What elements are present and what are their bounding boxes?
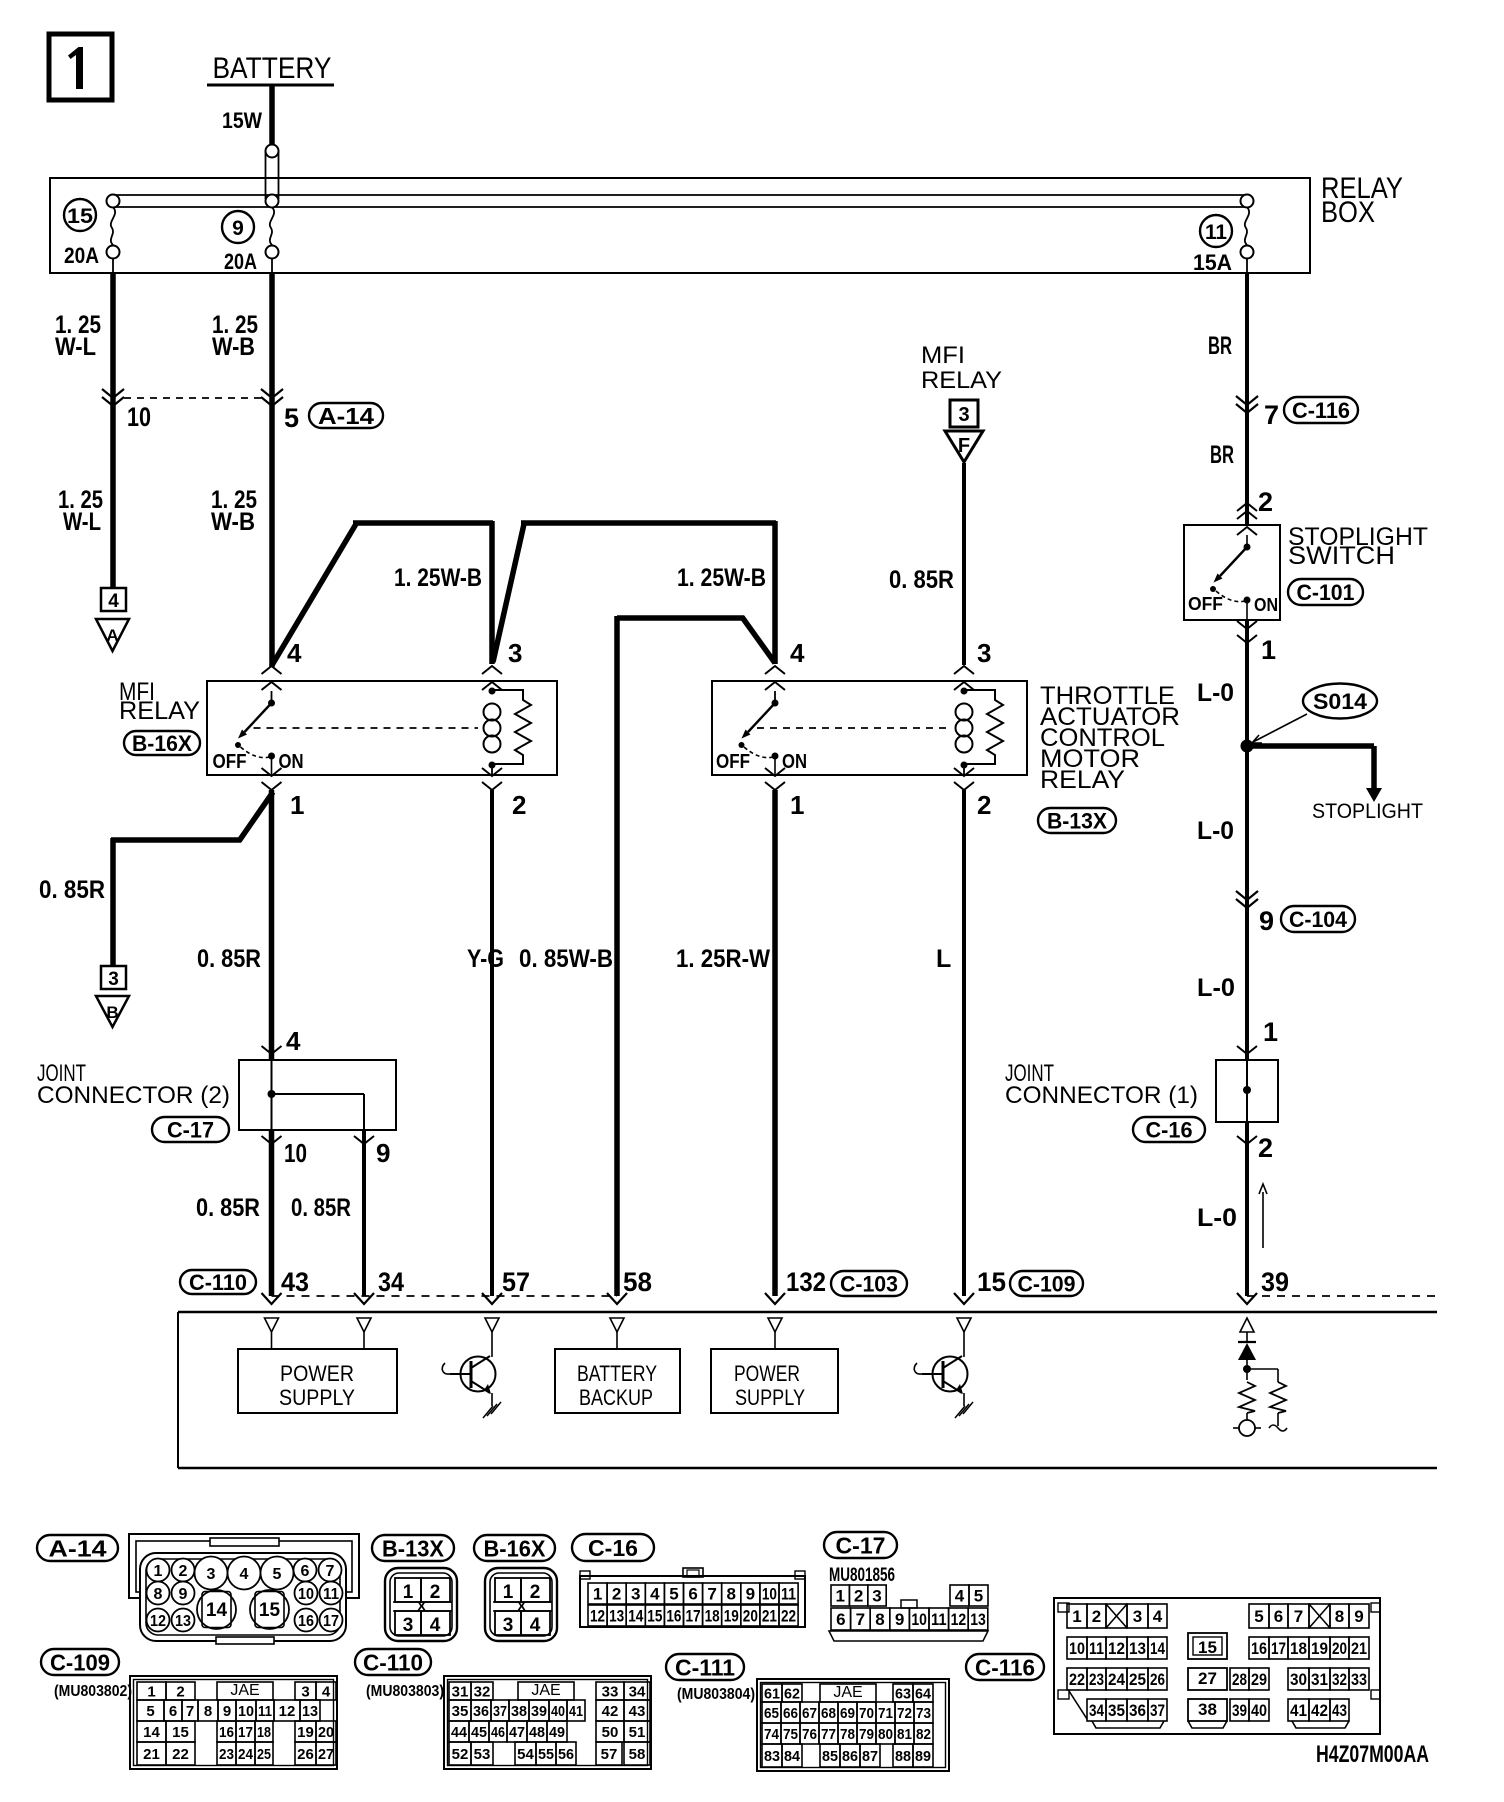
svg-text:1: 1 bbox=[154, 1563, 163, 1580]
svg-text:JAE: JAE bbox=[833, 1684, 862, 1701]
svg-text:2: 2 bbox=[612, 1585, 621, 1604]
svg-text:16: 16 bbox=[1251, 1639, 1267, 1658]
svg-text:10: 10 bbox=[762, 1585, 777, 1604]
svg-text:14: 14 bbox=[206, 1600, 228, 1621]
svg-text:7: 7 bbox=[856, 1610, 865, 1629]
svg-text:ON: ON bbox=[1254, 595, 1278, 615]
svg-text:74: 74 bbox=[764, 1726, 780, 1743]
svg-text:5: 5 bbox=[273, 1566, 282, 1583]
svg-text:41: 41 bbox=[569, 1703, 583, 1720]
svg-text:B-16X: B-16X bbox=[484, 1535, 547, 1561]
svg-text:10: 10 bbox=[127, 402, 151, 432]
svg-text:7: 7 bbox=[1264, 400, 1279, 430]
svg-text:47: 47 bbox=[509, 1724, 525, 1741]
svg-text:11: 11 bbox=[323, 1586, 339, 1603]
svg-text:2: 2 bbox=[176, 1683, 184, 1700]
svg-text:10: 10 bbox=[284, 1138, 307, 1168]
svg-text:18: 18 bbox=[705, 1607, 720, 1626]
svg-text:43: 43 bbox=[629, 1703, 646, 1720]
svg-text:55: 55 bbox=[538, 1746, 554, 1763]
svg-text:C-109: C-109 bbox=[1018, 1271, 1076, 1296]
svg-text:JAE: JAE bbox=[230, 1682, 259, 1699]
svg-text:15: 15 bbox=[1198, 1638, 1217, 1657]
svg-text:BATTERY: BATTERY bbox=[213, 52, 332, 85]
svg-text:44: 44 bbox=[451, 1724, 468, 1741]
svg-text:2: 2 bbox=[1258, 487, 1273, 517]
svg-text:4: 4 bbox=[530, 1615, 541, 1636]
svg-text:12: 12 bbox=[150, 1613, 166, 1630]
svg-text:ON: ON bbox=[782, 751, 807, 773]
svg-text:12: 12 bbox=[1108, 1639, 1125, 1658]
svg-text:1: 1 bbox=[503, 1582, 514, 1603]
svg-text:31: 31 bbox=[452, 1683, 469, 1700]
svg-text:26: 26 bbox=[1150, 1670, 1165, 1689]
svg-text:C-17: C-17 bbox=[167, 1117, 214, 1142]
svg-text:58: 58 bbox=[623, 1267, 652, 1297]
svg-text:Y-G: Y-G bbox=[467, 945, 504, 973]
svg-text:38: 38 bbox=[1198, 1700, 1217, 1719]
svg-text:11: 11 bbox=[1205, 221, 1227, 244]
svg-text:20: 20 bbox=[743, 1607, 758, 1626]
svg-text:76: 76 bbox=[802, 1726, 817, 1743]
svg-text:3: 3 bbox=[977, 638, 991, 668]
svg-text:20A: 20A bbox=[224, 249, 257, 274]
svg-text:12: 12 bbox=[951, 1610, 967, 1629]
svg-text:80: 80 bbox=[878, 1726, 893, 1743]
svg-text:13: 13 bbox=[1129, 1639, 1146, 1658]
svg-text:15: 15 bbox=[259, 1600, 281, 1621]
svg-text:C-110: C-110 bbox=[189, 1270, 247, 1295]
svg-text:11: 11 bbox=[781, 1585, 796, 1604]
svg-text:(MU803804): (MU803804) bbox=[677, 1686, 755, 1703]
svg-text:17: 17 bbox=[323, 1613, 339, 1630]
svg-text:58: 58 bbox=[629, 1746, 646, 1763]
svg-text:38: 38 bbox=[511, 1703, 527, 1720]
svg-text:13: 13 bbox=[175, 1613, 191, 1630]
svg-text:28: 28 bbox=[1232, 1670, 1247, 1689]
svg-text:73: 73 bbox=[916, 1705, 931, 1722]
svg-text:11: 11 bbox=[931, 1610, 947, 1629]
svg-text:45: 45 bbox=[471, 1724, 487, 1741]
svg-text:A-14: A-14 bbox=[318, 403, 374, 429]
svg-text:21: 21 bbox=[143, 1746, 160, 1763]
svg-text:5: 5 bbox=[146, 1703, 154, 1720]
svg-text:C-103: C-103 bbox=[840, 1271, 898, 1296]
svg-text:71: 71 bbox=[878, 1705, 893, 1722]
svg-text:3: 3 bbox=[207, 1566, 216, 1583]
svg-text:SUPPLY: SUPPLY bbox=[279, 1385, 355, 1410]
svg-text:4: 4 bbox=[1153, 1607, 1163, 1626]
svg-text:61: 61 bbox=[764, 1685, 780, 1702]
svg-text:34: 34 bbox=[378, 1267, 404, 1297]
svg-text:37: 37 bbox=[493, 1703, 507, 1720]
svg-text:62: 62 bbox=[784, 1685, 800, 1702]
svg-text:8: 8 bbox=[727, 1585, 736, 1604]
svg-text:15A: 15A bbox=[1193, 250, 1232, 275]
svg-text:13: 13 bbox=[609, 1607, 624, 1626]
svg-text:6: 6 bbox=[169, 1703, 177, 1720]
svg-text:MU801856: MU801856 bbox=[829, 1565, 895, 1586]
svg-text:24: 24 bbox=[1108, 1670, 1125, 1689]
svg-text:B-16X: B-16X bbox=[132, 731, 192, 756]
svg-text:41: 41 bbox=[1290, 1701, 1307, 1720]
svg-text:65: 65 bbox=[764, 1705, 779, 1722]
svg-text:87: 87 bbox=[862, 1748, 878, 1765]
svg-text:W-B: W-B bbox=[211, 508, 255, 536]
svg-text:JAE: JAE bbox=[531, 1682, 560, 1699]
svg-text:C-109: C-109 bbox=[50, 1649, 110, 1675]
svg-text:10: 10 bbox=[1069, 1639, 1085, 1658]
svg-text:5: 5 bbox=[669, 1585, 678, 1604]
svg-text:1: 1 bbox=[1072, 1607, 1081, 1626]
svg-text:64: 64 bbox=[915, 1685, 932, 1702]
svg-text:8: 8 bbox=[1335, 1607, 1344, 1626]
svg-text:85: 85 bbox=[822, 1748, 838, 1765]
svg-text:4: 4 bbox=[287, 638, 302, 668]
svg-text:BATTERY: BATTERY bbox=[577, 1361, 657, 1386]
svg-text:CONNECTOR (2): CONNECTOR (2) bbox=[37, 1082, 230, 1109]
svg-text:2: 2 bbox=[430, 1582, 441, 1603]
svg-text:BACKUP: BACKUP bbox=[579, 1385, 653, 1410]
svg-text:F: F bbox=[958, 435, 970, 457]
svg-text:H4Z07M00AA: H4Z07M00AA bbox=[1316, 1741, 1429, 1768]
svg-text:0. 85R: 0. 85R bbox=[889, 566, 954, 594]
svg-text:88: 88 bbox=[895, 1748, 911, 1765]
svg-text:40: 40 bbox=[1251, 1701, 1267, 1720]
svg-text:7: 7 bbox=[1294, 1607, 1303, 1626]
svg-text:B-13X: B-13X bbox=[382, 1535, 445, 1561]
svg-text:L-0: L-0 bbox=[1197, 974, 1235, 1002]
svg-text:3: 3 bbox=[958, 404, 969, 426]
svg-text:68: 68 bbox=[821, 1705, 836, 1722]
svg-text:0. 85R: 0. 85R bbox=[197, 945, 261, 973]
svg-text:OFF: OFF bbox=[1188, 594, 1223, 614]
svg-text:21: 21 bbox=[762, 1607, 777, 1626]
svg-text:22: 22 bbox=[172, 1746, 189, 1763]
svg-text:2: 2 bbox=[1092, 1607, 1101, 1626]
svg-text:39: 39 bbox=[1261, 1267, 1289, 1297]
svg-text:7: 7 bbox=[707, 1585, 716, 1604]
svg-text:37: 37 bbox=[1150, 1701, 1165, 1720]
svg-text:BOX: BOX bbox=[1321, 196, 1375, 229]
svg-text:S014: S014 bbox=[1313, 689, 1368, 714]
svg-text:27: 27 bbox=[1198, 1669, 1217, 1688]
svg-text:3: 3 bbox=[301, 1683, 309, 1700]
svg-text:9: 9 bbox=[746, 1585, 755, 1604]
svg-text:6: 6 bbox=[301, 1563, 310, 1580]
svg-text:31: 31 bbox=[1311, 1670, 1328, 1689]
svg-text:1. 25W-B: 1. 25W-B bbox=[677, 564, 766, 592]
svg-text:78: 78 bbox=[840, 1726, 855, 1743]
svg-text:1: 1 bbox=[147, 1683, 155, 1700]
svg-text:34: 34 bbox=[1089, 1701, 1104, 1720]
svg-text:C-16: C-16 bbox=[588, 1535, 638, 1561]
svg-text:RELAY: RELAY bbox=[921, 367, 1002, 394]
svg-text:89: 89 bbox=[915, 1748, 931, 1765]
svg-text:34: 34 bbox=[629, 1683, 646, 1700]
svg-text:21: 21 bbox=[1351, 1639, 1367, 1658]
svg-text:W-L: W-L bbox=[63, 508, 101, 536]
svg-text:BR: BR bbox=[1208, 332, 1232, 360]
svg-text:1: 1 bbox=[790, 790, 804, 820]
svg-text:14: 14 bbox=[628, 1607, 644, 1626]
svg-text:48: 48 bbox=[529, 1724, 545, 1741]
svg-text:3: 3 bbox=[508, 638, 522, 668]
svg-text:25: 25 bbox=[257, 1746, 271, 1763]
svg-text:77: 77 bbox=[821, 1726, 836, 1743]
svg-text:63: 63 bbox=[895, 1685, 911, 1702]
svg-text:2: 2 bbox=[530, 1582, 541, 1603]
svg-text:53: 53 bbox=[474, 1746, 491, 1763]
svg-text:13: 13 bbox=[302, 1703, 318, 1720]
svg-text:3: 3 bbox=[403, 1615, 414, 1636]
svg-text:SUPPLY: SUPPLY bbox=[735, 1385, 805, 1410]
svg-text:15: 15 bbox=[647, 1607, 662, 1626]
svg-text:46: 46 bbox=[491, 1724, 505, 1741]
svg-text:5: 5 bbox=[284, 403, 299, 433]
svg-text:9: 9 bbox=[223, 1703, 231, 1720]
svg-text:15: 15 bbox=[67, 205, 93, 228]
svg-text:4: 4 bbox=[240, 1566, 249, 1583]
svg-text:4: 4 bbox=[322, 1683, 331, 1700]
svg-text:1. 25W-B: 1. 25W-B bbox=[394, 564, 482, 592]
svg-text:9: 9 bbox=[179, 1586, 188, 1603]
svg-text:14: 14 bbox=[143, 1724, 160, 1741]
svg-text:26: 26 bbox=[297, 1746, 314, 1763]
svg-text:4: 4 bbox=[108, 591, 119, 612]
svg-text:32: 32 bbox=[1332, 1670, 1347, 1689]
svg-text:54: 54 bbox=[517, 1746, 534, 1763]
svg-text:1: 1 bbox=[835, 1587, 844, 1606]
svg-text:19: 19 bbox=[724, 1607, 739, 1626]
svg-text:POWER: POWER bbox=[734, 1361, 800, 1386]
svg-text:20: 20 bbox=[1332, 1639, 1347, 1658]
svg-text:4: 4 bbox=[650, 1585, 660, 1604]
svg-text:19: 19 bbox=[297, 1724, 314, 1741]
svg-text:0. 85R: 0. 85R bbox=[291, 1194, 351, 1222]
svg-text:6: 6 bbox=[836, 1610, 845, 1629]
svg-text:15: 15 bbox=[977, 1267, 1006, 1297]
svg-text:25: 25 bbox=[1129, 1670, 1146, 1689]
svg-text:10: 10 bbox=[298, 1586, 314, 1603]
svg-text:35: 35 bbox=[1108, 1701, 1125, 1720]
svg-text:C-110: C-110 bbox=[363, 1649, 423, 1675]
svg-text:10: 10 bbox=[911, 1610, 927, 1629]
svg-text:57: 57 bbox=[502, 1267, 530, 1297]
svg-text:3: 3 bbox=[872, 1587, 881, 1606]
svg-text:7: 7 bbox=[186, 1703, 194, 1720]
svg-text:23: 23 bbox=[1089, 1670, 1104, 1689]
svg-text:51: 51 bbox=[629, 1724, 646, 1741]
svg-text:56: 56 bbox=[558, 1746, 574, 1763]
svg-text:39: 39 bbox=[531, 1703, 547, 1720]
svg-text:69: 69 bbox=[840, 1705, 855, 1722]
svg-text:MFI: MFI bbox=[921, 342, 965, 369]
svg-text:X: X bbox=[417, 1598, 427, 1614]
svg-text:72: 72 bbox=[897, 1705, 912, 1722]
svg-text:27: 27 bbox=[318, 1746, 334, 1763]
svg-text:W-L: W-L bbox=[55, 333, 96, 361]
svg-text:24: 24 bbox=[238, 1746, 254, 1763]
svg-text:15: 15 bbox=[172, 1724, 189, 1741]
svg-text:49: 49 bbox=[549, 1724, 565, 1741]
svg-text:29: 29 bbox=[1251, 1670, 1267, 1689]
svg-text:43: 43 bbox=[1332, 1701, 1347, 1720]
svg-text:L: L bbox=[936, 945, 951, 973]
svg-text:0. 85W-B: 0. 85W-B bbox=[519, 945, 613, 973]
svg-text:OFF: OFF bbox=[716, 751, 750, 773]
svg-text:6: 6 bbox=[688, 1585, 697, 1604]
svg-text:1: 1 bbox=[593, 1585, 602, 1604]
svg-text:12: 12 bbox=[590, 1607, 605, 1626]
svg-text:7: 7 bbox=[326, 1563, 335, 1580]
svg-text:10: 10 bbox=[238, 1703, 254, 1720]
svg-text:36: 36 bbox=[473, 1703, 489, 1720]
svg-text:30: 30 bbox=[1290, 1670, 1307, 1689]
svg-text:75: 75 bbox=[783, 1726, 798, 1743]
svg-text:CONNECTOR (1): CONNECTOR (1) bbox=[1005, 1082, 1198, 1109]
svg-text:33: 33 bbox=[602, 1683, 619, 1700]
svg-text:5: 5 bbox=[974, 1587, 983, 1606]
svg-text:B: B bbox=[106, 1003, 118, 1022]
svg-text:66: 66 bbox=[783, 1705, 798, 1722]
svg-text:C-16: C-16 bbox=[1146, 1117, 1193, 1142]
svg-text:3: 3 bbox=[1133, 1607, 1142, 1626]
svg-text:22: 22 bbox=[1069, 1670, 1085, 1689]
svg-text:9: 9 bbox=[376, 1138, 390, 1168]
svg-text:52: 52 bbox=[452, 1746, 469, 1763]
svg-text:2: 2 bbox=[854, 1587, 863, 1606]
svg-text:A: A bbox=[106, 626, 118, 645]
svg-text:1: 1 bbox=[403, 1582, 414, 1603]
svg-text:SWITCH: SWITCH bbox=[1288, 542, 1395, 570]
svg-text:81: 81 bbox=[897, 1726, 912, 1743]
svg-text:23: 23 bbox=[219, 1746, 234, 1763]
svg-text:OFF: OFF bbox=[213, 751, 247, 773]
svg-text:8: 8 bbox=[875, 1610, 884, 1629]
svg-text:4: 4 bbox=[955, 1587, 965, 1606]
svg-text:2: 2 bbox=[977, 790, 991, 820]
svg-text:39: 39 bbox=[1232, 1701, 1247, 1720]
svg-text:X: X bbox=[517, 1598, 527, 1614]
svg-text:16: 16 bbox=[298, 1613, 314, 1630]
svg-text:18: 18 bbox=[1290, 1639, 1307, 1658]
svg-text:0. 85R: 0. 85R bbox=[196, 1194, 260, 1222]
svg-text:9: 9 bbox=[895, 1610, 904, 1629]
svg-text:19: 19 bbox=[1311, 1639, 1328, 1658]
svg-text:16: 16 bbox=[219, 1724, 234, 1741]
svg-text:12: 12 bbox=[279, 1703, 296, 1720]
svg-text:BR: BR bbox=[1210, 441, 1234, 469]
svg-text:A-14: A-14 bbox=[49, 1535, 107, 1561]
svg-text:9: 9 bbox=[232, 217, 244, 240]
svg-text:84: 84 bbox=[784, 1748, 801, 1765]
svg-text:17: 17 bbox=[1271, 1639, 1286, 1658]
svg-text:C-101: C-101 bbox=[1297, 580, 1355, 605]
svg-text:L-0: L-0 bbox=[1197, 1204, 1237, 1232]
svg-text:RELAY: RELAY bbox=[1040, 766, 1125, 794]
svg-text:18: 18 bbox=[257, 1724, 271, 1741]
svg-text:4: 4 bbox=[286, 1026, 301, 1056]
svg-text:9: 9 bbox=[1354, 1607, 1363, 1626]
svg-text:40: 40 bbox=[551, 1703, 565, 1720]
svg-text:11: 11 bbox=[258, 1703, 272, 1720]
svg-text:22: 22 bbox=[781, 1607, 796, 1626]
svg-text:13: 13 bbox=[970, 1610, 986, 1629]
svg-text:35: 35 bbox=[452, 1703, 469, 1720]
svg-text:79: 79 bbox=[859, 1726, 874, 1743]
svg-text:4: 4 bbox=[790, 638, 805, 668]
svg-text:42: 42 bbox=[1311, 1701, 1328, 1720]
svg-text:8: 8 bbox=[154, 1586, 163, 1603]
svg-text:B-13X: B-13X bbox=[1047, 808, 1107, 833]
svg-text:6: 6 bbox=[1274, 1607, 1283, 1626]
svg-text:5: 5 bbox=[1254, 1607, 1263, 1626]
svg-text:132: 132 bbox=[786, 1267, 826, 1297]
svg-text:3: 3 bbox=[503, 1615, 514, 1636]
svg-text:ON: ON bbox=[279, 751, 304, 773]
svg-text:0. 85R: 0. 85R bbox=[39, 876, 105, 904]
svg-text:9: 9 bbox=[1259, 906, 1274, 936]
svg-text:(MU803802): (MU803802) bbox=[54, 1683, 132, 1700]
svg-text:42: 42 bbox=[602, 1703, 619, 1720]
svg-text:C-17: C-17 bbox=[836, 1532, 886, 1558]
svg-text:11: 11 bbox=[1089, 1639, 1104, 1658]
svg-text:2: 2 bbox=[1258, 1133, 1273, 1163]
svg-text:C-116: C-116 bbox=[975, 1654, 1035, 1680]
svg-text:16: 16 bbox=[666, 1607, 681, 1626]
svg-text:POWER: POWER bbox=[280, 1361, 354, 1386]
svg-text:L-0: L-0 bbox=[1197, 817, 1234, 845]
svg-text:83: 83 bbox=[764, 1748, 780, 1765]
svg-text:C-111: C-111 bbox=[675, 1654, 735, 1680]
svg-text:20: 20 bbox=[318, 1724, 334, 1741]
svg-text:43: 43 bbox=[281, 1267, 309, 1297]
svg-text:17: 17 bbox=[686, 1607, 701, 1626]
svg-text:57: 57 bbox=[601, 1746, 618, 1763]
svg-text:36: 36 bbox=[1129, 1701, 1146, 1720]
svg-text:C-116: C-116 bbox=[1292, 398, 1350, 423]
svg-text:3: 3 bbox=[108, 969, 119, 990]
svg-text:33: 33 bbox=[1351, 1670, 1367, 1689]
svg-text:3: 3 bbox=[631, 1585, 640, 1604]
svg-text:86: 86 bbox=[842, 1748, 858, 1765]
svg-text:67: 67 bbox=[802, 1705, 817, 1722]
svg-text:C-104: C-104 bbox=[1289, 907, 1348, 932]
svg-text:17: 17 bbox=[238, 1724, 253, 1741]
svg-text:15W: 15W bbox=[222, 108, 262, 133]
svg-text:RELAY: RELAY bbox=[119, 697, 200, 725]
svg-text:1: 1 bbox=[1263, 1017, 1278, 1047]
svg-text:1. 25R-W: 1. 25R-W bbox=[676, 945, 770, 973]
svg-text:8: 8 bbox=[204, 1703, 212, 1720]
svg-text:14: 14 bbox=[1150, 1639, 1165, 1658]
svg-text:20A: 20A bbox=[64, 243, 99, 268]
svg-text:50: 50 bbox=[602, 1724, 619, 1741]
svg-text:2: 2 bbox=[179, 1563, 188, 1580]
svg-text:4: 4 bbox=[430, 1615, 441, 1636]
svg-text:L-0: L-0 bbox=[1197, 679, 1234, 707]
svg-text:(MU803803): (MU803803) bbox=[366, 1683, 444, 1700]
svg-text:70: 70 bbox=[859, 1705, 874, 1722]
svg-text:1: 1 bbox=[1261, 635, 1276, 665]
svg-text:32: 32 bbox=[474, 1683, 491, 1700]
svg-text:2: 2 bbox=[512, 790, 526, 820]
svg-text:1: 1 bbox=[290, 790, 304, 820]
svg-text:STOPLIGHT: STOPLIGHT bbox=[1312, 800, 1423, 823]
svg-text:82: 82 bbox=[916, 1726, 931, 1743]
svg-text:W-B: W-B bbox=[212, 333, 255, 361]
